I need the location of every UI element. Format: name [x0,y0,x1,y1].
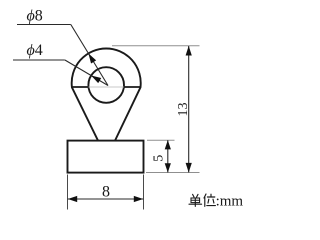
inner circle (hole, phi 4) [88,67,124,103]
extension line from base bottom-right [146,172,200,174]
svg-text::mm: :mm [216,194,244,210]
leader arrow phi4 on inner circle [91,76,101,84]
unit note: hanzi DAN (single) drawn strokes [189,194,202,206]
arrow 8 left [68,196,77,202]
extension line base left (for 8) [67,175,69,210]
arrow 5 top [165,140,171,149]
leader line phi8 diagonal to center [71,25,108,86]
svg-text:13: 13 [176,103,191,117]
arrow 8 right [134,196,143,202]
dimension line 5 [167,140,169,172]
extension line top (from circle top) [112,45,200,47]
arrow 13 bottom [186,163,192,173]
dimension line 13 [188,46,190,172]
arrow 13 top [186,46,192,56]
chord line right segment [124,86,142,88]
base rectangle [68,141,144,173]
svg-text:5: 5 [151,155,166,162]
leader line phi4 diagonal to center [65,60,108,86]
outer circle arc (part outline, phi 8 boss) [72,48,141,87]
unit note: hanzi WEI (position) drawn strokes [204,194,215,206]
svg-text:ϕ4: ϕ4 [27,42,43,59]
chord line across hole (faint) [89,86,124,88]
dimension line 8 [68,198,144,200]
extension line base right (for 8) [143,175,145,210]
right slant side [115,87,141,140]
leader line phi8 horizontal [17,24,71,26]
leader arrow phi8 on outer circle [88,53,96,63]
left slant side [72,87,98,140]
svg-text:ϕ8: ϕ8 [27,7,43,24]
chord line left segment [71,86,89,88]
extension line from base top-right [147,139,175,141]
arrow 5 bottom [165,163,171,172]
svg-text:8: 8 [102,183,110,200]
leader line phi4 horizontal [13,59,65,61]
